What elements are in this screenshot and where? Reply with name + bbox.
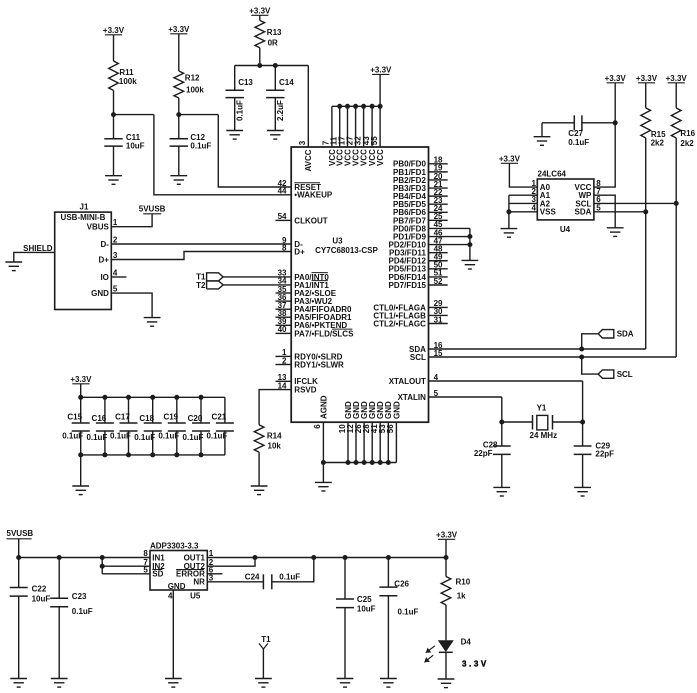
svg-text:5VUSB: 5VUSB: [7, 529, 34, 538]
svg-text:54: 54: [278, 212, 287, 221]
svg-text:31: 31: [434, 315, 443, 324]
svg-text:•WAKEUP: •WAKEUP: [294, 191, 333, 200]
svg-text:0.1uF: 0.1uF: [72, 607, 93, 616]
svg-text:AGND: AGND: [319, 395, 328, 419]
svg-text:C16: C16: [92, 414, 107, 423]
svg-text:GND: GND: [91, 289, 109, 298]
svg-text:C13: C13: [238, 78, 253, 87]
svg-text:U3: U3: [332, 237, 343, 246]
svg-text:C17: C17: [115, 413, 130, 422]
svg-text:D+: D+: [98, 255, 109, 264]
svg-text:10k: 10k: [268, 441, 282, 450]
svg-text:10uF: 10uF: [126, 142, 145, 151]
svg-text:+3.3V: +3.3V: [499, 155, 521, 164]
svg-text:VBUS: VBUS: [87, 223, 110, 232]
svg-text:AVCC: AVCC: [304, 149, 313, 171]
svg-text:52: 52: [434, 277, 443, 286]
svg-text:C25: C25: [357, 595, 372, 604]
svg-text:SCL: SCL: [617, 370, 633, 379]
svg-text:22pF: 22pF: [595, 450, 614, 459]
svg-text:C24: C24: [245, 573, 260, 582]
svg-text:PD7/FD15: PD7/FD15: [389, 281, 427, 290]
svg-text:0.1uF: 0.1uF: [158, 431, 179, 440]
svg-text:+3.3V: +3.3V: [70, 375, 92, 384]
svg-text:+3.3V: +3.3V: [605, 74, 627, 83]
svg-text:0.1uF: 0.1uF: [398, 607, 419, 616]
svg-text:1k: 1k: [457, 591, 466, 600]
svg-text:D4: D4: [461, 637, 472, 646]
svg-text:15: 15: [434, 349, 443, 358]
svg-text:R16: R16: [680, 129, 695, 138]
svg-text:C18: C18: [139, 414, 154, 423]
svg-text:10uF: 10uF: [32, 594, 51, 603]
svg-text:C19: C19: [163, 413, 178, 422]
svg-text:RSVD: RSVD: [294, 386, 316, 395]
svg-text:1: 1: [113, 218, 118, 227]
svg-text:2: 2: [282, 356, 287, 365]
svg-text:+3.3V: +3.3V: [636, 74, 658, 83]
svg-text:8: 8: [143, 549, 148, 558]
svg-text:0.1uF: 0.1uF: [62, 431, 83, 440]
svg-text:C11: C11: [126, 133, 141, 142]
svg-text:XTALOUT: XTALOUT: [389, 377, 426, 386]
svg-text:0.1uF: 0.1uF: [279, 573, 300, 582]
svg-text:C20: C20: [188, 414, 203, 423]
svg-text:VSS: VSS: [540, 208, 557, 217]
svg-text:0.1uF: 0.1uF: [110, 431, 131, 440]
svg-text:+3.3V: +3.3V: [666, 74, 688, 83]
svg-text:24 MHz: 24 MHz: [530, 431, 558, 440]
svg-text:5VUSB: 5VUSB: [139, 205, 166, 214]
svg-text:6: 6: [313, 424, 322, 429]
svg-text:D+: D+: [294, 247, 305, 256]
svg-text:C22: C22: [32, 585, 47, 594]
svg-text:SDA: SDA: [617, 330, 634, 339]
svg-text:U4: U4: [560, 225, 571, 234]
svg-text:+3.3V: +3.3V: [249, 7, 271, 16]
svg-text:100k: 100k: [186, 85, 204, 94]
svg-text:R12: R12: [185, 74, 200, 83]
svg-text:22pF: 22pF: [474, 449, 493, 458]
svg-text:+3.3V: +3.3V: [436, 531, 458, 540]
svg-text:ADP3303-3.3: ADP3303-3.3: [150, 541, 199, 550]
svg-text:C12: C12: [190, 133, 205, 142]
svg-text:5: 5: [143, 566, 148, 575]
svg-text:IO: IO: [100, 273, 108, 282]
svg-text:XTALIN: XTALIN: [398, 393, 427, 402]
svg-text:SD: SD: [152, 570, 163, 579]
svg-text:2k2: 2k2: [680, 139, 694, 148]
svg-text:R13: R13: [267, 28, 282, 37]
svg-text:R14: R14: [267, 432, 282, 441]
svg-text:2.2uF: 2.2uF: [276, 100, 285, 121]
svg-text:CTL2/•FLAGC: CTL2/•FLAGC: [373, 319, 426, 328]
svg-text:GND: GND: [168, 582, 186, 591]
svg-text:0R: 0R: [268, 39, 278, 48]
svg-text:4: 4: [168, 592, 173, 601]
svg-text:24LC64: 24LC64: [538, 170, 567, 179]
svg-text:4: 4: [113, 269, 118, 278]
svg-text:0.1uF: 0.1uF: [134, 433, 155, 442]
svg-text:T1: T1: [261, 635, 271, 644]
svg-text:IN1: IN1: [152, 553, 165, 562]
svg-text:U5: U5: [190, 591, 201, 600]
svg-text:SCL: SCL: [410, 353, 426, 362]
svg-text:100k: 100k: [119, 77, 137, 86]
svg-text:C28: C28: [483, 440, 498, 449]
svg-text:J1: J1: [80, 203, 89, 212]
svg-text:3: 3: [298, 140, 307, 145]
svg-text:C14: C14: [279, 78, 294, 87]
svg-text:RDY1/•SLWR: RDY1/•SLWR: [294, 360, 344, 369]
svg-text:3: 3: [113, 251, 118, 260]
svg-text:0.1uF: 0.1uF: [86, 433, 107, 442]
svg-text:2k2: 2k2: [651, 138, 665, 147]
svg-text:C15: C15: [67, 413, 82, 422]
svg-text:OUT1: OUT1: [184, 553, 206, 562]
svg-text:0.1uF: 0.1uF: [236, 100, 245, 121]
svg-text:40: 40: [278, 325, 287, 334]
svg-text:0.1uF: 0.1uF: [206, 431, 227, 440]
svg-text:Y1: Y1: [537, 404, 547, 413]
svg-text:4: 4: [434, 373, 439, 382]
svg-text:0.1uF: 0.1uF: [568, 138, 589, 147]
svg-text:3.3V: 3.3V: [462, 660, 489, 669]
svg-text:5: 5: [113, 285, 118, 294]
svg-text:SDA: SDA: [575, 208, 592, 217]
svg-text:R10: R10: [456, 577, 471, 586]
svg-text:0.1uF: 0.1uF: [183, 433, 204, 442]
svg-text:0.1uF: 0.1uF: [190, 142, 211, 151]
svg-text:T2: T2: [196, 281, 206, 290]
svg-text:VCC: VCC: [376, 149, 385, 166]
svg-text:NR: NR: [193, 578, 205, 587]
svg-text:10uF: 10uF: [357, 605, 376, 614]
svg-text:USB-MINI-B: USB-MINI-B: [61, 213, 106, 222]
svg-text:CLKOUT: CLKOUT: [294, 216, 327, 225]
svg-text:CY7C68013-CSP: CY7C68013-CSP: [315, 246, 378, 255]
svg-text:D-: D-: [100, 240, 109, 249]
svg-text:GND: GND: [392, 401, 401, 419]
svg-text:56: 56: [386, 424, 395, 433]
svg-text:PA7/•FLD/SLCS: PA7/•FLD/SLCS: [294, 329, 354, 338]
svg-text:44: 44: [278, 187, 287, 196]
svg-text:C21: C21: [212, 413, 227, 422]
svg-text:5: 5: [434, 389, 439, 398]
svg-text:2: 2: [113, 236, 118, 245]
svg-text:+3.3V: +3.3V: [168, 25, 190, 34]
svg-text:8: 8: [282, 243, 287, 252]
svg-text:C26: C26: [394, 579, 409, 588]
svg-text:+3.3V: +3.3V: [103, 26, 125, 35]
svg-text:C23: C23: [72, 592, 87, 601]
svg-text:+3.3V: +3.3V: [370, 66, 392, 75]
svg-text:55: 55: [370, 136, 379, 145]
